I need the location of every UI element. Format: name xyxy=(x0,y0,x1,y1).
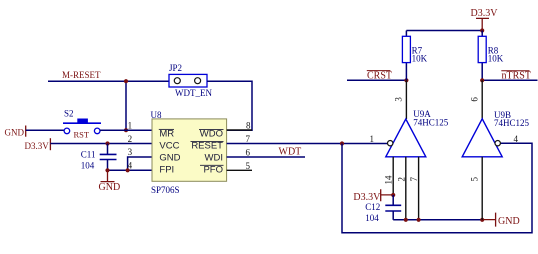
wire switch to U8 pin1 xyxy=(100,129,152,131)
wire C11 bottom lead xyxy=(107,160,109,171)
svg-text:GND: GND xyxy=(498,216,520,227)
wire U9A pin 14 xyxy=(392,157,394,195)
svg-text:6: 6 xyxy=(470,97,480,102)
wire U9A output pin 3 xyxy=(405,80,407,119)
svg-text:74HC125: 74HC125 xyxy=(494,118,530,128)
svg-text:GND: GND xyxy=(159,153,180,164)
wire CRST net xyxy=(347,79,406,81)
wire GND to switch xyxy=(26,129,64,131)
wire R7 leads xyxy=(405,31,407,81)
svg-text:SP706S: SP706S xyxy=(151,185,180,195)
junction C11/GND xyxy=(105,168,109,172)
svg-text:S2: S2 xyxy=(64,109,74,119)
junction nTRST/R8 xyxy=(480,78,484,82)
wire JP2 to U8 pin8 xyxy=(207,81,252,130)
svg-text:4: 4 xyxy=(514,134,519,144)
junction pin1 tee xyxy=(124,128,128,132)
capacitor C12 xyxy=(385,205,401,211)
svg-text:FPI: FPI xyxy=(159,164,174,175)
pin name FPI xyxy=(159,164,174,175)
buffer U9B xyxy=(462,119,502,157)
wire enable net to U9B enable xyxy=(342,143,532,233)
junction CRST/R7 xyxy=(404,78,408,82)
switch S2 xyxy=(63,119,101,134)
buffer U9A xyxy=(386,119,426,157)
junction pin2/rail xyxy=(404,218,408,222)
power port D3.3V left xyxy=(49,138,51,150)
junction pin5/rail xyxy=(480,218,484,222)
IC U8 SP706S body xyxy=(152,119,227,181)
wire RESET net U8 pin7 to U9A enable xyxy=(227,143,388,145)
junction M-RESET/JP2 xyxy=(124,79,128,83)
svg-text:104: 104 xyxy=(365,213,379,223)
svg-text:5: 5 xyxy=(246,161,251,171)
resistor R8 xyxy=(478,36,486,62)
svg-text:10K: 10K xyxy=(412,54,428,64)
svg-text:WDT: WDT xyxy=(279,147,302,158)
power port GND right xyxy=(482,213,519,227)
wire gnd rail xyxy=(393,219,482,221)
wire WDT net xyxy=(227,156,305,158)
junction D3.3V/C12 xyxy=(391,193,395,197)
svg-text:U8: U8 xyxy=(151,110,162,120)
wire nTRST net xyxy=(482,79,537,81)
svg-text:WDO: WDO xyxy=(200,128,223,139)
svg-text:5: 5 xyxy=(470,177,480,182)
resistor R7 xyxy=(402,36,410,62)
wire M-RESET drop to pin1 xyxy=(125,81,127,130)
svg-text:GND: GND xyxy=(99,182,121,193)
pin name WDO xyxy=(199,128,224,139)
wire C11 to U8 pin4 xyxy=(108,169,153,171)
svg-text:C11: C11 xyxy=(81,150,96,160)
svg-text:JP2: JP2 xyxy=(169,63,182,73)
pin name PFO xyxy=(200,164,224,175)
wire R8 leads xyxy=(481,31,483,81)
wire U8 pin8 stub xyxy=(227,129,252,131)
svg-text:6: 6 xyxy=(246,148,251,158)
jumper JP2 xyxy=(169,74,207,87)
svg-text:D3.3V: D3.3V xyxy=(25,141,50,151)
wire C12 bottom lead xyxy=(392,211,394,220)
junction pin3/pin4 xyxy=(126,168,130,172)
power port D3.3V top xyxy=(471,8,499,31)
svg-text:CRST: CRST xyxy=(367,71,392,82)
svg-text:104: 104 xyxy=(81,161,95,171)
junction VCC/C11 xyxy=(105,141,109,145)
wire U8 pin3 jog xyxy=(128,157,152,170)
svg-text:7: 7 xyxy=(409,177,419,182)
svg-text:PFO: PFO xyxy=(203,164,223,175)
wire U9A pin 7 xyxy=(418,157,420,220)
svg-text:7: 7 xyxy=(246,134,251,144)
svg-text:M-RESET: M-RESET xyxy=(62,70,101,80)
svg-text:WDT_EN: WDT_EN xyxy=(175,88,212,98)
svg-text:8: 8 xyxy=(246,121,251,131)
svg-text:RST: RST xyxy=(74,130,90,140)
wire top rail R7-R8 xyxy=(406,30,482,32)
wire D3.3V to U8 pin2 xyxy=(50,143,152,145)
wire U9A pin 2 xyxy=(405,157,407,220)
svg-text:nTRST: nTRST xyxy=(502,71,531,82)
junction D3.3V/rail xyxy=(480,28,484,32)
wire U9B output pin 6 xyxy=(481,80,483,119)
svg-text:1: 1 xyxy=(370,134,375,144)
svg-text:14: 14 xyxy=(384,175,394,185)
svg-text:MR: MR xyxy=(159,128,174,139)
svg-text:74HC125: 74HC125 xyxy=(413,118,449,128)
wire C11 top lead xyxy=(107,144,109,155)
junction RESET/enable drop xyxy=(340,141,344,145)
svg-text:1: 1 xyxy=(128,121,133,131)
wire U8 pin5 stub xyxy=(227,169,252,171)
svg-text:WDI: WDI xyxy=(205,153,223,164)
power port D3.3V mid xyxy=(353,189,393,203)
junction pin7/rail xyxy=(417,218,421,222)
wire C12 top lead xyxy=(392,195,394,205)
svg-text:3: 3 xyxy=(394,97,404,102)
svg-text:D3.3V: D3.3V xyxy=(471,8,499,19)
svg-text:2: 2 xyxy=(397,177,407,182)
power port GND left xyxy=(25,126,27,137)
power port GND below C11 xyxy=(99,170,121,193)
svg-text:GND: GND xyxy=(5,127,25,137)
pin name RESET xyxy=(191,140,224,151)
svg-text:2: 2 xyxy=(128,134,133,144)
svg-text:3: 3 xyxy=(128,147,133,157)
svg-text:10K: 10K xyxy=(488,54,504,64)
wire M-RESET horizontal xyxy=(48,80,169,82)
pin name MR xyxy=(159,128,175,139)
capacitor C11 xyxy=(100,154,117,159)
svg-text:RESET: RESET xyxy=(191,140,223,151)
svg-text:C12: C12 xyxy=(365,202,380,212)
svg-text:4: 4 xyxy=(128,160,133,170)
svg-text:VCC: VCC xyxy=(159,140,179,151)
wire U9B pin 5 xyxy=(481,157,483,220)
